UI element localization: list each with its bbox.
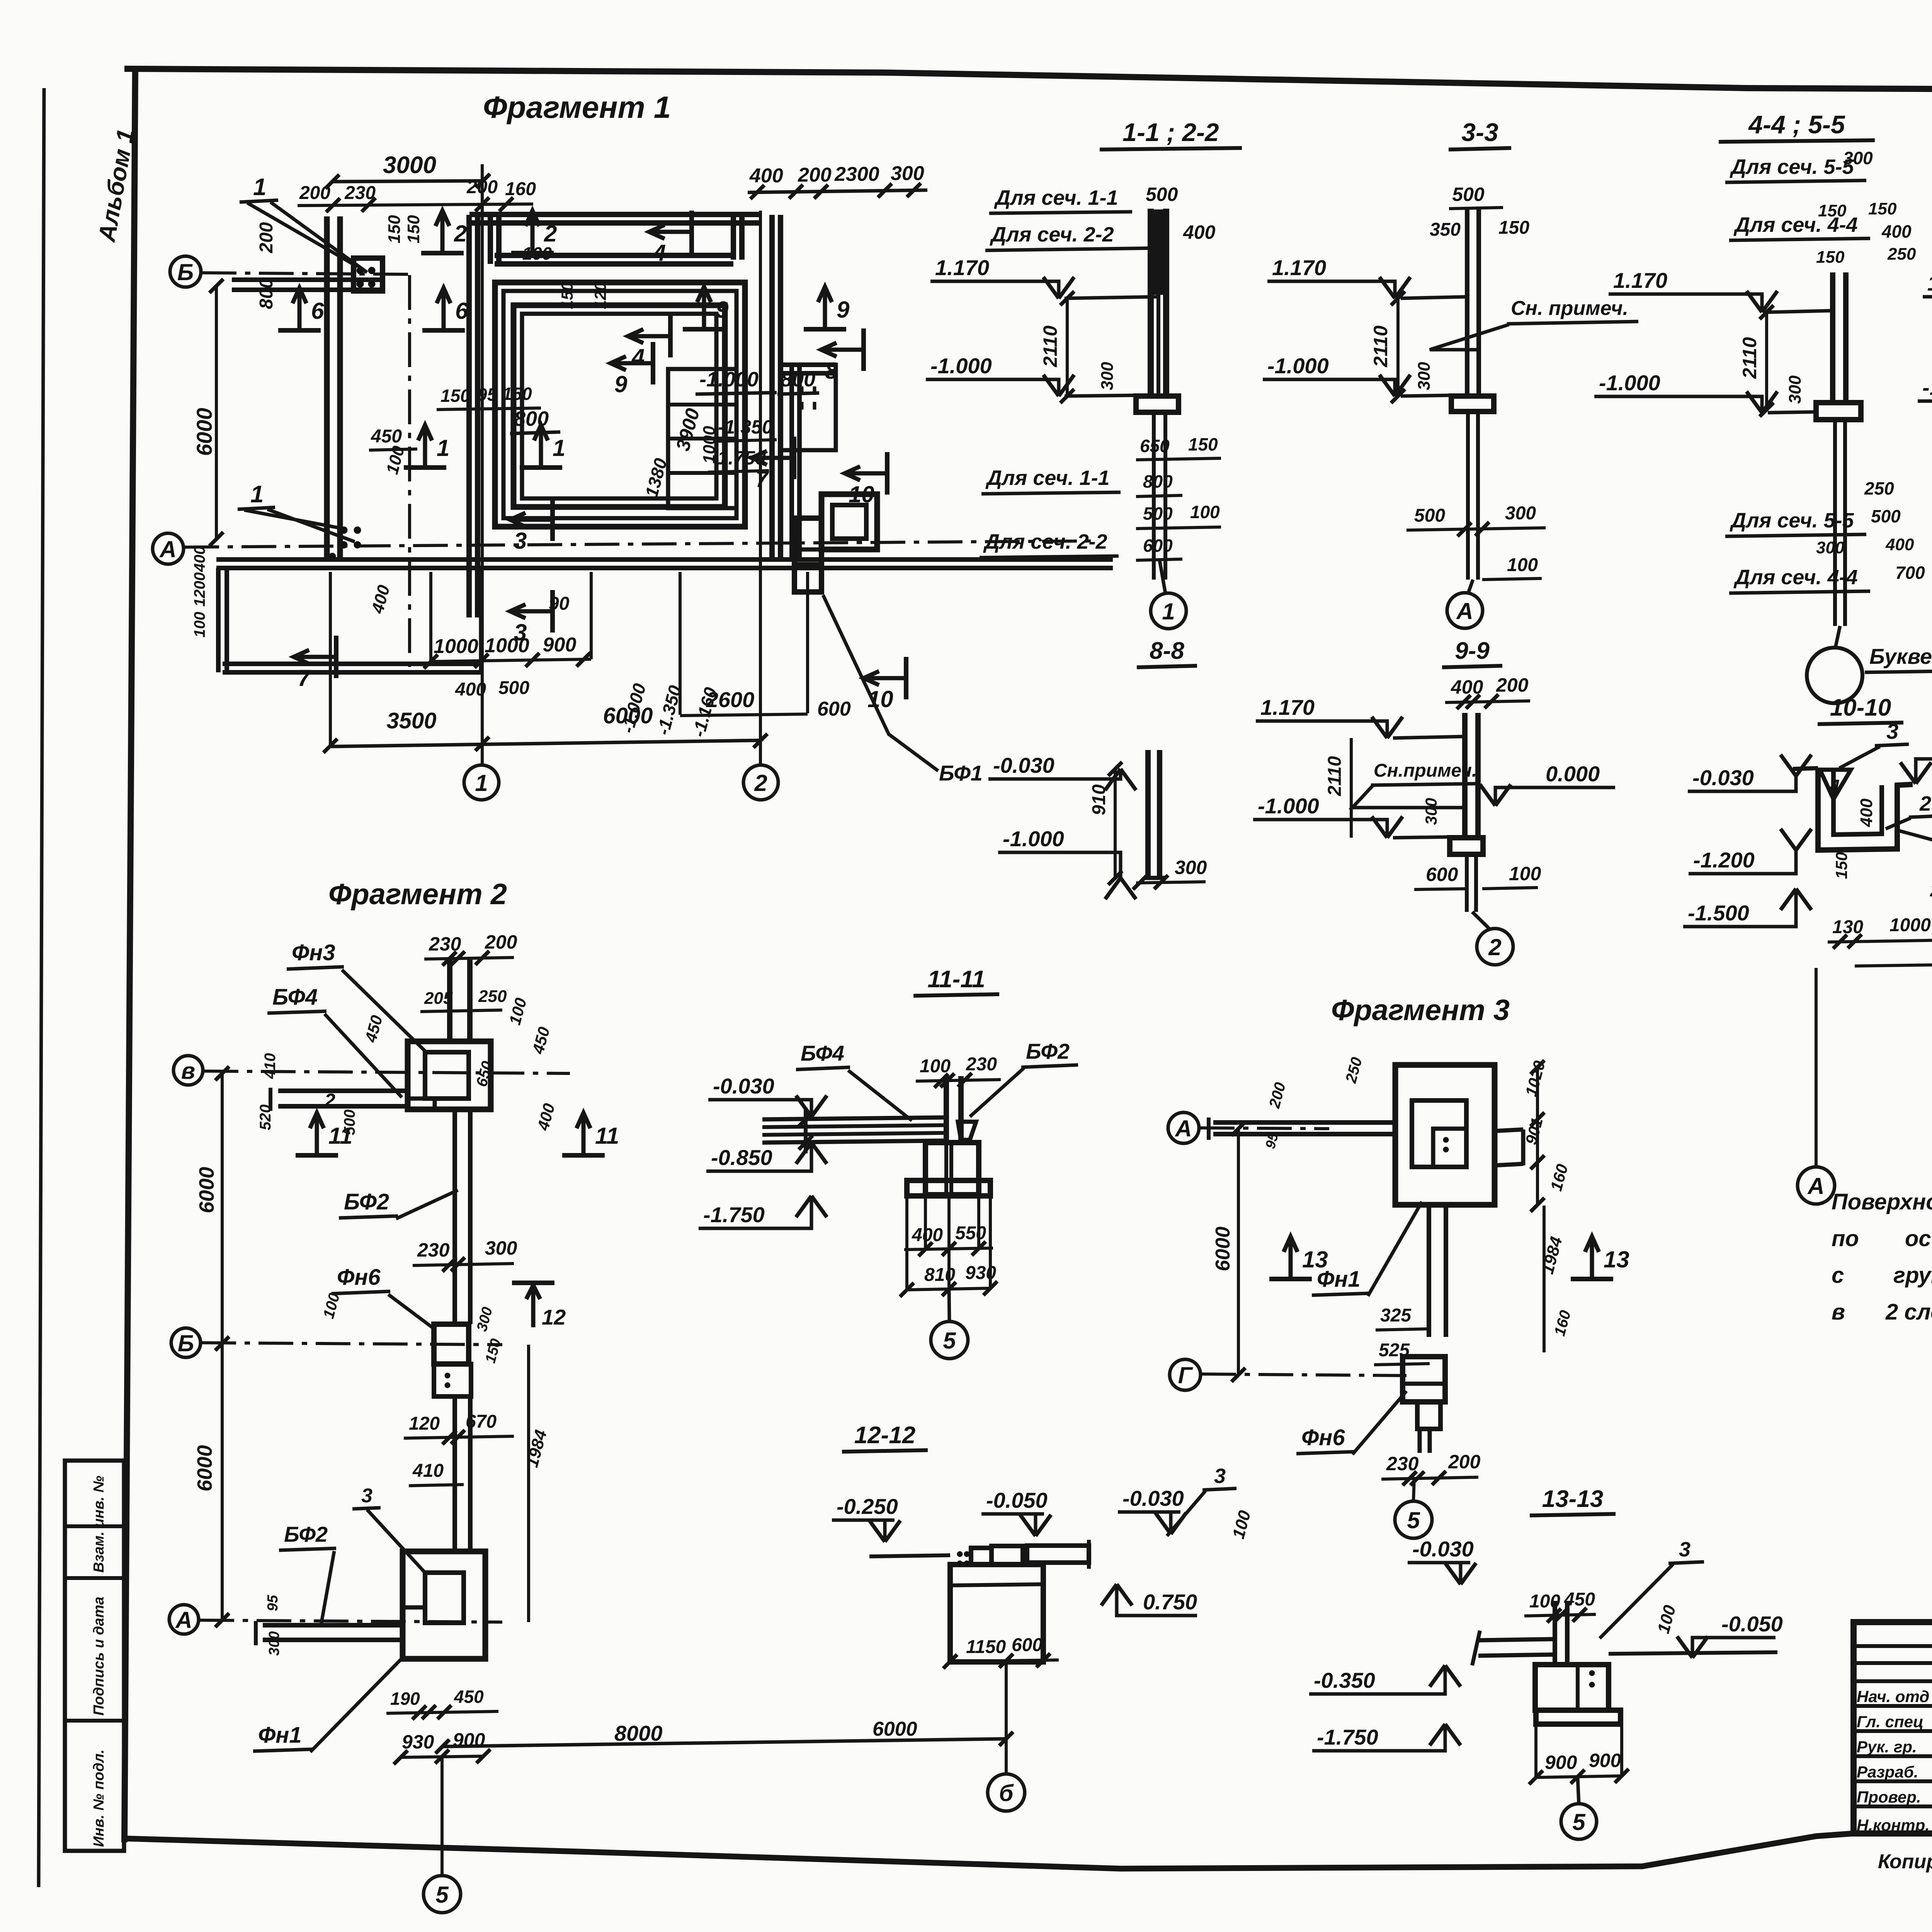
frag2 node at В inner: [425, 1052, 469, 1099]
svg-text:Для сеч. 2-2: Для сеч. 2-2: [983, 530, 1107, 553]
section arrow 6 left: [278, 328, 321, 333]
svg-text:200: 200: [466, 177, 498, 197]
svg-text:БФ1: БФ1: [939, 761, 983, 785]
frag3 node Фн6 at Г: [1403, 1357, 1445, 1402]
svg-text:11: 11: [328, 1123, 352, 1149]
axis А line frag2: [199, 1620, 502, 1622]
svg-text:Фн3: Фн3: [292, 940, 335, 965]
section 4-4 wall: [1830, 272, 1835, 403]
svg-text:12: 12: [542, 1305, 566, 1329]
svg-text:100: 100: [1654, 1603, 1679, 1635]
svg-text:2110: 2110: [1739, 337, 1760, 379]
section 13-13 extension lines: [1534, 1724, 1537, 1777]
dim 8000 line: [442, 1739, 1006, 1747]
axis А line frag3: [1200, 1128, 1329, 1129]
stair rungs: [668, 403, 736, 406]
section 4-4 lower column: [1833, 420, 1837, 626]
svg-text:600: 600: [817, 698, 851, 720]
frag3 node Фн1 inner: [1412, 1100, 1466, 1167]
frag3 node inner square: [1433, 1129, 1466, 1167]
svg-text:6000: 6000: [1212, 1226, 1234, 1271]
svg-text:95: 95: [265, 1595, 281, 1611]
svg-text:0.750: 0.750: [1143, 1590, 1197, 1614]
svg-text:Для сеч. 2-2: Для сеч. 2-2: [990, 223, 1114, 246]
svg-text:700: 700: [1895, 563, 1925, 583]
svg-text:670: 670: [466, 1412, 497, 1432]
svg-text:-0.030: -0.030: [1692, 765, 1754, 790]
frag2 node at А inner: [425, 1573, 464, 1623]
svg-text:2: 2: [544, 221, 557, 247]
axis В circle frag2: [173, 1056, 203, 1085]
svg-text:2600: 2600: [706, 687, 755, 712]
svg-text:1: 1: [1162, 599, 1175, 624]
svg-text:оси: оси: [1905, 1226, 1932, 1251]
axis Б circle: [170, 256, 201, 287]
main room outer wall rectangle: [495, 282, 745, 527]
frag2 node at Б: [434, 1324, 469, 1364]
grid circle 2: [743, 765, 778, 800]
section 9-9 footing: [1450, 838, 1483, 854]
svg-text:600: 600: [1012, 1635, 1043, 1655]
section 11-11 extension lines: [905, 1196, 908, 1290]
svg-text:100: 100: [1229, 1508, 1254, 1541]
axis Г circle frag3: [1170, 1359, 1201, 1390]
svg-text:120: 120: [591, 282, 609, 309]
svg-text:250: 250: [1864, 478, 1894, 498]
svg-text:11-11: 11-11: [927, 966, 985, 993]
svg-text:1.060: 1.060: [1927, 271, 1932, 295]
section 10-10 trough: [1818, 768, 1913, 850]
svg-text:100: 100: [505, 996, 530, 1027]
svg-text:2: 2: [454, 221, 467, 247]
svg-text:325: 325: [1380, 1305, 1412, 1326]
frag3 wall horizontal from А: [1213, 1132, 1395, 1136]
right detail box: [781, 365, 836, 450]
svg-text:400: 400: [1881, 221, 1912, 241]
svg-text:95: 95: [477, 384, 498, 405]
section 1-1 lower column: [1152, 412, 1156, 580]
frag2 wall upper pair: [447, 960, 452, 1041]
svg-text:-0.030: -0.030: [713, 1074, 774, 1098]
svg-text:400: 400: [191, 546, 208, 572]
svg-text:Для сеч. 5-5: Для сеч. 5-5: [1730, 155, 1854, 179]
axis 1 line vertical: [481, 164, 484, 764]
svg-text:200: 200: [485, 931, 517, 953]
axis В line frag2: [204, 1071, 570, 1073]
svg-text:150: 150: [1498, 218, 1529, 238]
section 3-3 wall: [1465, 209, 1469, 396]
section 10-10 left flange: [1793, 768, 1818, 769]
svg-text:Провер.: Провер.: [1857, 1788, 1921, 1806]
svg-text:1020: 1020: [1522, 1059, 1549, 1098]
svg-text:300: 300: [891, 162, 924, 185]
svg-text:5: 5: [1572, 1809, 1586, 1835]
section arrow 11 right frag2: [562, 1153, 605, 1158]
svg-text:Для сеч. 4-4: Для сеч. 4-4: [1733, 566, 1858, 589]
frag3 node Фн1 outer: [1395, 1065, 1495, 1205]
svg-text:100: 100: [1509, 863, 1541, 884]
section 12-12 left block: [950, 1565, 1043, 1662]
section arrow 8 right: [861, 328, 866, 371]
section arrow 12 frag2: [512, 1281, 554, 1285]
svg-text:1: 1: [437, 435, 449, 461]
svg-text:0.000: 0.000: [1546, 762, 1600, 786]
axis Б line frag2: [201, 1343, 502, 1345]
svg-text:1.170: 1.170: [1613, 268, 1667, 293]
svg-text:9: 9: [837, 297, 850, 323]
svg-text:1000: 1000: [485, 634, 529, 657]
frag2 node at А outer: [403, 1551, 485, 1659]
svg-text:300: 300: [1098, 362, 1117, 390]
svg-text:100: 100: [522, 243, 552, 264]
axis А circle frag2: [169, 1605, 199, 1634]
svg-text:Для сеч. 4-4: Для сеч. 4-4: [1733, 213, 1858, 236]
svg-text:Фрагмент 1: Фрагмент 1: [483, 90, 671, 124]
svg-text:-0.850: -0.850: [711, 1145, 772, 1170]
svg-text:б: б: [999, 1780, 1014, 1806]
wall upper band left rise: [488, 215, 493, 264]
svg-text:5: 5: [1407, 1507, 1420, 1533]
svg-text:в: в: [1832, 1299, 1845, 1325]
axis Б line: [202, 273, 413, 274]
svg-text:9: 9: [716, 297, 729, 323]
svg-text:-1.000: -1.000: [699, 368, 759, 391]
svg-text:-1.500: -1.500: [1688, 901, 1749, 925]
section arrow 1 left: [404, 465, 446, 470]
svg-text:Сн.примеч.: Сн.примеч.: [1374, 760, 1477, 781]
svg-text:250: 250: [1342, 1055, 1366, 1085]
frag3 wall below node: [1427, 1205, 1431, 1337]
svg-text:-1.000: -1.000: [1003, 827, 1064, 851]
section 11-11 floor slab: [762, 1117, 944, 1119]
frag3 node right step lines: [1495, 1129, 1523, 1131]
section 4-4 footing: [1816, 403, 1861, 420]
svg-text:1: 1: [250, 481, 264, 508]
svg-text:13: 13: [1604, 1247, 1629, 1272]
svg-text:900: 900: [1545, 1752, 1577, 1773]
svg-text:8000: 8000: [614, 1721, 663, 1745]
svg-text:4: 4: [653, 240, 666, 266]
frag3 node Фн6 small: [1417, 1402, 1440, 1429]
svg-text:с: с: [1832, 1263, 1844, 1288]
svg-text:БФ2: БФ2: [344, 1189, 389, 1214]
wall upper band horizontal: [495, 261, 733, 267]
svg-text:150: 150: [1816, 248, 1845, 267]
page outer left edge line: [39, 88, 44, 1887]
axis А circle: [153, 533, 184, 564]
section arrow 4 mid: [668, 315, 673, 357]
svg-text:250: 250: [478, 987, 507, 1006]
svg-text:1984: 1984: [522, 1428, 551, 1469]
svg-text:1000: 1000: [1889, 915, 1931, 935]
svg-text:13-13: 13-13: [1542, 1486, 1604, 1512]
svg-text:100: 100: [1190, 502, 1220, 522]
frag2 node at В outer: [408, 1041, 491, 1109]
svg-text:900: 900: [543, 634, 577, 656]
svg-text:410: 410: [412, 1461, 444, 1481]
svg-text:900: 900: [1589, 1750, 1621, 1771]
svg-text:Г: Г: [1178, 1362, 1194, 1388]
svg-text:160: 160: [1547, 1162, 1571, 1193]
frag3 vertical dim line: [1237, 1129, 1240, 1375]
svg-text:150: 150: [482, 1337, 504, 1365]
svg-text:550: 550: [955, 1223, 986, 1243]
grid circle 5 frag2: [423, 1876, 461, 1913]
svg-text:800: 800: [256, 278, 277, 309]
svg-text:Фн1: Фн1: [258, 1723, 302, 1748]
svg-text:200: 200: [256, 222, 277, 253]
svg-text:150: 150: [440, 386, 470, 406]
svg-text:6000: 6000: [195, 1167, 218, 1213]
frag2 wall left horizontal БФ2: [263, 1638, 403, 1642]
svg-text:6: 6: [455, 298, 468, 324]
axis А line: [184, 541, 1094, 547]
svg-text:Для сеч. 1-1: Для сеч. 1-1: [994, 186, 1118, 209]
wall left vertical pair: [324, 216, 330, 561]
svg-text:6000: 6000: [603, 703, 653, 728]
svg-text:190: 190: [390, 1689, 420, 1709]
svg-text:500: 500: [1146, 184, 1178, 205]
svg-text:600: 600: [1426, 864, 1458, 885]
svg-text:230: 230: [417, 1239, 450, 1261]
drawing frame top border: [124, 69, 1932, 92]
svg-text:200: 200: [798, 164, 832, 186]
svg-text:-1.350: -1.350: [718, 416, 773, 438]
svg-text:100: 100: [320, 1291, 343, 1320]
svg-text:4-4 ; 5-5: 4-4 ; 5-5: [1748, 110, 1845, 139]
svg-text:-1.750: -1.750: [711, 447, 766, 469]
svg-text:500: 500: [498, 678, 529, 698]
svg-text:1: 1: [553, 435, 565, 461]
section 13-13 slab: [1478, 1639, 1554, 1640]
drawing frame left border: [124, 67, 135, 1842]
wall upper band right rise: [731, 215, 736, 260]
svg-text:500: 500: [1143, 503, 1173, 524]
svg-text:150: 150: [502, 384, 532, 404]
svg-text:Рук. гр.: Рук. гр.: [1857, 1738, 1917, 1756]
ramp rectangle left wall: [216, 568, 221, 672]
section 1-1 level line 2: [1065, 395, 1136, 396]
svg-text:Для сеч. 1-1: Для сеч. 1-1: [985, 466, 1110, 490]
section 13-13 dots: [1589, 1670, 1595, 1676]
frag3 wall below Г: [1418, 1429, 1422, 1453]
ramp rectangle bottom: [223, 670, 481, 675]
svg-text:Разраб.: Разраб.: [1857, 1763, 1918, 1781]
svg-text:-1.000: -1.000: [1922, 375, 1932, 400]
grid circle 2 under 9-9: [1477, 929, 1513, 965]
section arrow 4 top: [689, 211, 694, 253]
svg-text:1150: 1150: [966, 1637, 1006, 1657]
svg-text:150: 150: [558, 282, 576, 309]
svg-text:2: 2: [1919, 792, 1931, 815]
svg-text:300: 300: [1422, 798, 1440, 825]
svg-text:3900: 3900: [672, 406, 704, 453]
svg-text:6: 6: [311, 298, 324, 324]
svg-text:6000: 6000: [193, 1445, 216, 1492]
svg-text:2 слоя: 2 слоя: [1885, 1299, 1932, 1325]
section arrow 13 left frag3: [1269, 1277, 1312, 1281]
svg-text:300: 300: [1175, 857, 1207, 878]
svg-text:2: 2: [324, 1090, 335, 1111]
svg-text:4: 4: [1829, 776, 1840, 796]
svg-text:400: 400: [1183, 221, 1216, 243]
section arrow 9 up: [683, 327, 725, 332]
svg-text:500: 500: [1414, 505, 1445, 526]
svg-text:8-8: 8-8: [1150, 638, 1184, 664]
svg-text:300: 300: [1415, 362, 1434, 390]
svg-text:-0.050: -0.050: [1721, 1612, 1783, 1636]
svg-text:Поверхности: Поверхности: [1832, 1189, 1932, 1214]
stair area box in room: [668, 369, 736, 508]
svg-text:800: 800: [514, 407, 549, 430]
grid circle 5 under 13-13: [1561, 1804, 1597, 1839]
section arrow 9 mid: [651, 342, 655, 384]
block БФ1 below pit: [794, 518, 821, 592]
svg-text:-1.000: -1.000: [1267, 354, 1329, 378]
section arrow 13 right frag3: [1571, 1277, 1613, 1281]
section 12-12 slab right: [1027, 1546, 1089, 1563]
section arrow 9 right: [804, 327, 846, 332]
section arrow 7 right: [792, 437, 796, 479]
section 11-11 wall taper: [958, 1122, 976, 1140]
section arrow 3 below: [550, 590, 555, 633]
axis 2 line vertical: [759, 211, 762, 764]
frag2 node Б lower box: [434, 1364, 471, 1396]
section 12-12 post: [971, 1548, 992, 1565]
svg-text:-0.050: -0.050: [986, 1488, 1048, 1512]
wall band along axis Б: [232, 287, 383, 292]
svg-text:500: 500: [1452, 184, 1485, 205]
svg-text:400: 400: [534, 1101, 558, 1133]
axis А circle frag3: [1168, 1112, 1199, 1143]
svg-text:1.170: 1.170: [935, 255, 989, 280]
section 1-1 level line: [1065, 297, 1158, 298]
wall right second pair: [789, 365, 794, 561]
svg-text:1.170: 1.170: [1260, 695, 1315, 719]
ramp right closure: [479, 568, 483, 672]
svg-text:300: 300: [1505, 503, 1536, 524]
section 3-3 lower column: [1466, 412, 1470, 580]
svg-text:90: 90: [549, 594, 570, 614]
svg-text:8: 8: [825, 358, 838, 384]
section 13-13 right ground: [1609, 1652, 1777, 1654]
svg-text:-1.000: -1.000: [1599, 371, 1660, 395]
svg-text:2: 2: [754, 770, 767, 796]
section arrow 2 left: [421, 251, 464, 255]
svg-text:200: 200: [1266, 1080, 1289, 1110]
svg-text:3500: 3500: [386, 708, 436, 733]
title block signature table rows: [1854, 1644, 1932, 1648]
svg-text:800: 800: [781, 368, 815, 391]
grid circle б under 12-12: [988, 1774, 1025, 1811]
axis Б circle frag2: [171, 1328, 201, 1357]
grid circle А under 10-10: [1798, 1167, 1835, 1204]
svg-text:400: 400: [749, 165, 783, 187]
svg-text:200: 200: [1496, 674, 1529, 696]
svg-text:Фрагмент 3: Фрагмент 3: [1331, 994, 1510, 1027]
axis Г line frag3: [1201, 1374, 1406, 1376]
svg-text:11: 11: [595, 1123, 619, 1149]
grid circle 5 frag3: [1395, 1501, 1432, 1538]
wall right tall pair: [769, 215, 775, 561]
svg-text:БФ4: БФ4: [801, 1041, 844, 1065]
svg-text:3: 3: [514, 528, 527, 554]
svg-text:300: 300: [485, 1237, 517, 1259]
svg-text:230: 230: [1386, 1453, 1419, 1475]
left stamp column box: [65, 1461, 124, 1851]
section arrow 10 bottom right: [904, 657, 908, 699]
svg-text:Б: Б: [177, 259, 194, 285]
frag2 wall below Б: [452, 1396, 457, 1551]
svg-text:10-10: 10-10: [1830, 694, 1891, 721]
extension lines below plan: [329, 572, 332, 746]
wall step box near axis Б: [354, 258, 383, 291]
svg-text:800: 800: [1143, 471, 1173, 492]
svg-text:1984: 1984: [1538, 1235, 1566, 1276]
svg-text:160: 160: [505, 179, 536, 199]
svg-text:Сн. примеч.: Сн. примеч.: [1511, 297, 1628, 320]
pit inner square: [832, 505, 866, 539]
svg-text:Нач. отд: Нач. отд: [1857, 1687, 1929, 1706]
svg-text:400: 400: [1885, 535, 1914, 554]
section 13-13 plate: [1536, 1710, 1621, 1724]
pit outer square: [821, 494, 877, 549]
svg-text:200: 200: [1448, 1451, 1481, 1473]
section 10-10 hatch triangle: [1820, 770, 1851, 799]
svg-text:600: 600: [1143, 536, 1173, 556]
section arrow 6 right: [422, 328, 465, 333]
svg-text:300: 300: [266, 1631, 282, 1656]
wall second vertical pair: [466, 215, 472, 617]
frag2 wall left horizontal БФ4: [278, 1104, 408, 1109]
svg-text:-1.750: -1.750: [703, 1202, 765, 1227]
svg-text:1000: 1000: [434, 635, 478, 658]
grid circle 5 under 11-11: [931, 1321, 968, 1359]
svg-text:300: 300: [474, 1305, 496, 1333]
anchor dots near axis Б: [357, 267, 364, 274]
svg-text:120: 120: [409, 1413, 440, 1434]
svg-text:150: 150: [385, 215, 404, 243]
svg-text:9-9: 9-9: [1455, 638, 1490, 664]
svg-text:650: 650: [1140, 436, 1170, 456]
svg-text:-0.350: -0.350: [1314, 1668, 1375, 1692]
svg-text:А: А: [1456, 598, 1473, 624]
svg-text:в: в: [181, 1058, 195, 1084]
svg-text:250: 250: [1887, 245, 1916, 264]
svg-text:Б: Б: [178, 1330, 194, 1356]
svg-text:2110: 2110: [1039, 325, 1061, 367]
svg-text:150: 150: [1188, 434, 1218, 454]
svg-text:520: 520: [257, 1104, 274, 1130]
svg-text:5: 5: [435, 1882, 449, 1908]
svg-text:10: 10: [849, 481, 874, 507]
letter axes circle: [1807, 648, 1862, 703]
section 8-8 foot: [1144, 876, 1165, 880]
section 12-12 ground line left: [869, 1555, 950, 1556]
svg-text:500: 500: [1871, 506, 1901, 526]
main title block outer box: [1854, 1622, 1932, 1833]
svg-text:810: 810: [924, 1265, 955, 1285]
svg-text:6000: 6000: [872, 1718, 917, 1740]
section 9-9 lower column: [1465, 854, 1469, 912]
svg-text:450: 450: [371, 426, 402, 447]
svg-text:-0.030: -0.030: [993, 753, 1054, 777]
svg-text:-0.030: -0.030: [1122, 1486, 1184, 1510]
svg-text:-0.030: -0.030: [1412, 1537, 1474, 1561]
dim line under row: [298, 204, 533, 206]
section 8-8 wall: [1145, 750, 1151, 878]
svg-text:по: по: [1832, 1226, 1859, 1251]
